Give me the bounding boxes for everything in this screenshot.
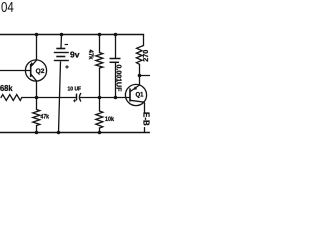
wire 0.001uF bottom lead	[115, 63, 117, 98]
wire left 47k top lead	[36, 98, 38, 110]
wire 0.001uF top lead	[115, 35, 117, 59]
Q2 base bar	[30, 64, 32, 77]
wire Q2 base from left edge	[0, 70, 31, 72]
Q1 base bar	[129, 88, 131, 101]
svg-text:47k: 47k	[41, 114, 50, 121]
capacitor C2 0.001UF plate top	[110, 58, 121, 60]
resistor R1 68k	[1, 95, 22, 101]
wire 270 bottom lead	[139, 64, 141, 75]
capacitor C2 0.001UF plate bottom	[110, 61, 120, 63]
svg-text:10 UF: 10 UF	[68, 87, 82, 93]
Q1 collector diagonal lower	[130, 100, 144, 103]
svg-text:68k: 68k	[0, 84, 13, 93]
battery plus sign	[65, 65, 68, 68]
wire output stub to right edge	[140, 75, 151, 77]
wire battery bottom lead	[59, 62, 61, 133]
svg-text:E-B: E-B	[141, 112, 150, 126]
capacitor C1 plus sign	[73, 99, 76, 102]
Q2 collector diagonal lower	[31, 74, 37, 81]
capacitor C1 10UF straight plate	[76, 94, 78, 101]
battery B1 plate short 2	[56, 56, 65, 58]
svg-text:04: 04	[1, 0, 14, 16]
svg-text:9v: 9v	[70, 50, 80, 60]
junction dot mid wire 47k/10k	[98, 96, 102, 100]
resistor R3 47k vertical right	[96, 53, 103, 69]
junction dot bottom rail battery	[57, 131, 61, 135]
svg-text:270: 270	[141, 50, 150, 62]
svg-text:47k: 47k	[87, 50, 93, 61]
capacitor C1 10UF curved plate	[79, 93, 81, 102]
Q2 emitter diagonal upper	[31, 60, 36, 66]
wire 47k top lead	[99, 35, 101, 53]
Q2 emitter arrow	[30, 62, 34, 66]
junction dot 270/Q1/output node	[138, 74, 142, 78]
wire left 47k bottom lead	[36, 126, 38, 133]
wire right corner down to 270	[143, 35, 145, 46]
wire Q2 emitter lead	[36, 81, 38, 98]
wire bottom rail	[0, 132, 150, 134]
transistor Q2 circle	[25, 60, 46, 81]
svg-text:Q2: Q2	[36, 68, 45, 75]
wire Q2 collector lead	[36, 35, 38, 61]
junction dot mid wire 0.001uF	[114, 96, 118, 100]
svg-text:10k: 10k	[105, 116, 114, 123]
wire node to Q1 collector	[139, 76, 141, 86]
wire top rail	[0, 34, 144, 36]
junction dot top rail battery	[60, 33, 64, 37]
Q1 emitter diagonal upper	[130, 85, 139, 92]
wire Q1 emitter down lower	[144, 128, 146, 133]
junction dot top rail 47k	[98, 33, 102, 37]
junction dot bottom rail left 47k	[35, 131, 39, 135]
junction dot top rail 0.001uF	[114, 33, 118, 37]
battery B1 plate long 1	[54, 52, 69, 54]
wire battery top lead	[60, 35, 63, 48]
transistor Q1 circle	[125, 84, 146, 105]
battery B1 plate short 1	[56, 48, 65, 50]
wire mid left 68k to 10uF cap	[22, 97, 76, 99]
resistor R4 10k	[96, 111, 103, 128]
wire mid right cap to Q1 base	[81, 97, 130, 99]
battery B1 plate long 2	[54, 60, 69, 62]
wire 10k bottom lead	[99, 128, 101, 133]
wire 10k top lead	[99, 98, 101, 112]
junction dot top rail Q2	[35, 33, 39, 37]
svg-text:0.001UF: 0.001UF	[115, 65, 122, 93]
wire 47k bottom lead	[99, 68, 101, 98]
resistor R5 270	[136, 46, 143, 65]
svg-text:Q1: Q1	[136, 93, 145, 99]
wire Q1 emitter down upper	[144, 103, 146, 112]
battery minus sign	[65, 44, 68, 46]
resistor R2 47k vertical left	[33, 110, 40, 126]
Q1 emitter arrow	[133, 86, 137, 90]
junction dot bottom rail 10k	[98, 131, 102, 135]
junction dot mid wire Q2 emitter	[35, 96, 39, 100]
